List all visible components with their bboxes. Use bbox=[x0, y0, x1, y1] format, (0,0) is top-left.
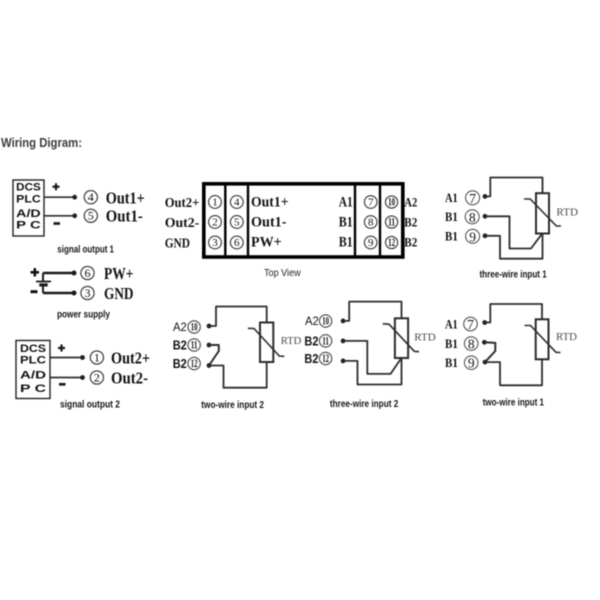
svg-text:3: 3 bbox=[212, 237, 218, 249]
terminal circle 11 topview bbox=[386, 215, 398, 229]
svg-text:A1: A1 bbox=[339, 195, 353, 211]
node dot pin12 bbox=[207, 363, 212, 368]
svg-text:B2: B2 bbox=[404, 215, 417, 230]
top view divider 3 bbox=[354, 186, 356, 258]
plus sign output2 bbox=[58, 345, 65, 352]
minus sign output2 bbox=[59, 383, 66, 386]
node dot pin9b bbox=[483, 360, 488, 365]
svg-text:7: 7 bbox=[368, 197, 374, 209]
terminal circle 1 bbox=[90, 350, 103, 364]
terminal circle 12 bbox=[188, 356, 200, 370]
svg-text:8: 8 bbox=[469, 210, 476, 225]
svg-text:4: 4 bbox=[234, 197, 240, 209]
terminal circle 4 bbox=[84, 190, 97, 204]
node dot pin12b bbox=[341, 359, 346, 364]
svg-text:12: 12 bbox=[191, 356, 198, 370]
svg-text:B1: B1 bbox=[445, 336, 458, 351]
svg-text:2: 2 bbox=[212, 217, 218, 229]
terminal circle 5 topview bbox=[230, 216, 243, 229]
RTD resistor body input1b bbox=[536, 319, 549, 359]
terminal circle 10b bbox=[319, 314, 331, 328]
wire pin9 to RTD bottom bbox=[485, 234, 543, 259]
svg-text:A/D: A/D bbox=[16, 208, 41, 220]
svg-text:A/D: A/D bbox=[20, 370, 46, 382]
svg-text:B2: B2 bbox=[173, 356, 187, 371]
DCS/PLC box 2 bbox=[16, 341, 50, 399]
svg-text:PW+: PW+ bbox=[251, 235, 282, 251]
svg-text:DCS: DCS bbox=[20, 343, 46, 355]
jumper wire pin11 to pin12 bbox=[209, 345, 219, 364]
svg-text:PLC: PLC bbox=[20, 355, 46, 367]
plus sign power supply bbox=[31, 268, 40, 276]
terminal circle 7b bbox=[464, 317, 478, 332]
svg-text:12: 12 bbox=[322, 351, 329, 365]
terminal circle 3 topview bbox=[209, 236, 222, 249]
terminal circle 12b bbox=[319, 351, 331, 365]
svg-text:5: 5 bbox=[234, 217, 240, 229]
wire pin8 to RTD bottom bbox=[485, 216, 542, 248]
svg-text:Top View: Top View bbox=[264, 268, 301, 279]
svg-text:3: 3 bbox=[85, 286, 91, 300]
svg-text:1: 1 bbox=[94, 350, 100, 364]
top view divider 2 bbox=[247, 186, 249, 258]
svg-text:three-wire input 2: three-wire input 2 bbox=[330, 399, 399, 410]
svg-text:Wiring Digram:: Wiring Digram: bbox=[1, 135, 82, 150]
node dot out1+ bbox=[72, 195, 77, 200]
terminal circle 7 bbox=[466, 191, 480, 206]
terminal circle 6 topview bbox=[230, 236, 243, 249]
wire pin7b to RTD top bbox=[485, 304, 542, 323]
svg-text:6: 6 bbox=[234, 237, 240, 249]
svg-text:B2: B2 bbox=[304, 351, 318, 366]
RTD resistor body input2b bbox=[395, 318, 408, 358]
svg-text:P C: P C bbox=[20, 383, 46, 395]
wire out2+ bbox=[50, 357, 83, 359]
svg-text:B1: B1 bbox=[445, 355, 458, 370]
svg-text:PLC: PLC bbox=[16, 194, 41, 206]
svg-text:Out1-: Out1- bbox=[106, 207, 143, 226]
node dot pin7b bbox=[482, 320, 487, 325]
top view divider 4 bbox=[379, 186, 381, 258]
terminal circle 2 bbox=[90, 370, 103, 384]
svg-text:B2: B2 bbox=[304, 333, 318, 348]
terminal circle 9b bbox=[464, 356, 478, 371]
terminal circle 10 bbox=[188, 320, 200, 334]
svg-text:power supply: power supply bbox=[57, 309, 110, 320]
svg-text:DCS: DCS bbox=[16, 182, 41, 194]
svg-text:8: 8 bbox=[368, 217, 374, 229]
svg-text:P C: P C bbox=[16, 220, 41, 232]
svg-text:Out1+: Out1+ bbox=[251, 195, 289, 211]
svg-text:RTD: RTD bbox=[556, 206, 578, 218]
terminal circle 9 topview bbox=[364, 236, 377, 249]
svg-text:7: 7 bbox=[467, 317, 474, 332]
wire pin7 to RTD top bbox=[485, 178, 543, 197]
svg-text:A2: A2 bbox=[173, 320, 187, 334]
wire pin10 to RTD top bbox=[209, 307, 267, 327]
svg-text:B2: B2 bbox=[404, 235, 417, 250]
svg-text:5: 5 bbox=[88, 209, 94, 223]
terminal circle 6 bbox=[81, 266, 94, 280]
terminal circle 12 topview bbox=[386, 235, 398, 249]
node dot pin10b bbox=[341, 319, 346, 324]
node dot out2+ bbox=[80, 355, 85, 360]
terminal circle 9 bbox=[466, 229, 480, 244]
svg-text:12: 12 bbox=[388, 235, 395, 249]
svg-text:Out1+: Out1+ bbox=[106, 189, 145, 208]
wire out1+ bbox=[44, 196, 75, 198]
wire pin9b to RTD bottom bbox=[485, 359, 542, 385]
wire out2- bbox=[50, 377, 83, 379]
wire out1- bbox=[44, 215, 75, 217]
minus sign output1 bbox=[54, 222, 61, 225]
terminal circle 1 topview bbox=[209, 196, 222, 209]
svg-text:A2: A2 bbox=[305, 314, 319, 328]
svg-text:Out2+: Out2+ bbox=[165, 196, 200, 211]
svg-text:4: 4 bbox=[88, 190, 94, 204]
plus sign output1 bbox=[53, 183, 60, 190]
node dot out1- bbox=[72, 213, 77, 218]
svg-text:9: 9 bbox=[368, 237, 374, 249]
svg-text:PW+: PW+ bbox=[104, 264, 134, 283]
svg-text:6: 6 bbox=[85, 266, 91, 280]
svg-text:Out2-: Out2- bbox=[165, 216, 200, 231]
terminal circle 8b bbox=[464, 337, 478, 352]
node dot pin9 bbox=[483, 233, 488, 238]
svg-text:7: 7 bbox=[469, 191, 476, 206]
svg-text:A1: A1 bbox=[445, 190, 458, 205]
node dot pin11 bbox=[207, 343, 212, 348]
svg-text:11: 11 bbox=[388, 215, 395, 229]
node dot out2- bbox=[80, 375, 85, 380]
terminal circle 10 topview bbox=[386, 195, 398, 209]
svg-text:signal output 2: signal output 2 bbox=[60, 400, 120, 411]
svg-text:11: 11 bbox=[191, 338, 198, 352]
RTD diagonal input1b bbox=[525, 326, 561, 353]
svg-text:10: 10 bbox=[322, 314, 329, 328]
top view outer box bbox=[204, 184, 403, 257]
wire pin11b to RTD bottom bbox=[343, 341, 401, 374]
svg-text:signal output 1: signal output 1 bbox=[57, 244, 114, 255]
svg-text:Out1-: Out1- bbox=[251, 215, 287, 231]
svg-text:10: 10 bbox=[388, 195, 395, 209]
svg-text:B1: B1 bbox=[339, 215, 353, 231]
svg-text:B2: B2 bbox=[173, 338, 187, 353]
wire pin12b to RTD bottom bbox=[343, 358, 401, 385]
wire pin12 to RTD bottom bbox=[209, 362, 267, 388]
svg-text:GND: GND bbox=[104, 284, 134, 303]
svg-text:B1: B1 bbox=[445, 229, 458, 244]
svg-text:9: 9 bbox=[469, 229, 476, 244]
svg-text:A2: A2 bbox=[404, 195, 417, 210]
terminal circle 2 topview bbox=[209, 216, 222, 229]
terminal circle 5 bbox=[84, 209, 97, 223]
node dot pin8b bbox=[482, 340, 487, 345]
RTD resistor body input1a bbox=[536, 193, 549, 233]
svg-text:8: 8 bbox=[468, 337, 475, 352]
svg-text:2: 2 bbox=[94, 370, 100, 384]
node dot GND bbox=[72, 291, 77, 296]
terminal circle 3 bbox=[81, 286, 94, 300]
wire PW+ bbox=[43, 272, 74, 274]
terminal circle 4 topview bbox=[230, 196, 243, 209]
jumper wire pin8b to pin9b bbox=[484, 342, 495, 362]
svg-text:RTD: RTD bbox=[414, 332, 436, 344]
terminal circle 7 topview bbox=[364, 196, 377, 209]
wire pin10b to RTD top bbox=[343, 302, 401, 321]
svg-text:two-wire input 2: two-wire input 2 bbox=[201, 400, 264, 411]
svg-text:three-wire input 1: three-wire input 1 bbox=[480, 270, 548, 281]
terminal circle 11 bbox=[188, 338, 200, 352]
DCS/PLC box 1 bbox=[13, 180, 44, 236]
battery B1 bbox=[36, 273, 51, 293]
svg-text:GND: GND bbox=[165, 237, 190, 252]
svg-text:Out2-: Out2- bbox=[111, 369, 148, 388]
wire GND bbox=[43, 292, 74, 294]
svg-text:Out2+: Out2+ bbox=[111, 349, 150, 368]
node dot pin11b bbox=[341, 339, 346, 344]
terminal circle 8 bbox=[465, 210, 479, 225]
svg-text:11: 11 bbox=[322, 334, 329, 348]
svg-text:10: 10 bbox=[191, 320, 198, 334]
top view divider 1 bbox=[224, 186, 226, 258]
svg-text:RTD: RTD bbox=[281, 335, 302, 347]
terminal circle 11b bbox=[319, 334, 331, 348]
svg-text:RTD: RTD bbox=[556, 331, 577, 343]
node dot pin7 bbox=[483, 194, 488, 199]
RTD resistor body input2a bbox=[260, 323, 273, 363]
svg-text:9: 9 bbox=[468, 356, 475, 371]
svg-text:two-wire input 1: two-wire input 1 bbox=[483, 398, 545, 409]
svg-text:B1: B1 bbox=[339, 235, 353, 251]
svg-text:B1: B1 bbox=[445, 209, 458, 224]
svg-text:1: 1 bbox=[212, 197, 218, 209]
RTD diagonal input2a bbox=[248, 328, 284, 356]
terminal circle 8 topview bbox=[364, 216, 377, 229]
minus sign power supply bbox=[31, 290, 38, 293]
node dot pin8 bbox=[483, 214, 488, 219]
node dot pin10 bbox=[207, 324, 212, 329]
RTD diagonal input1a bbox=[524, 199, 561, 226]
node dot PW+ bbox=[72, 271, 77, 276]
svg-text:A1: A1 bbox=[445, 317, 458, 332]
RTD diagonal input2b bbox=[383, 324, 419, 352]
